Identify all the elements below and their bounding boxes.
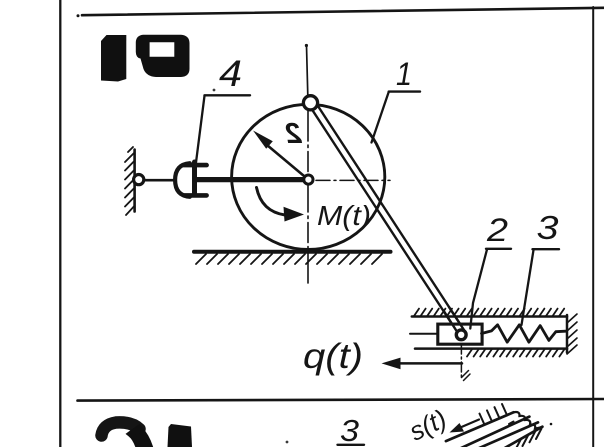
guide channel bottom line (415, 347, 567, 350)
next problem arrow (458, 420, 479, 429)
bottom row border (78, 399, 604, 401)
guide bottom hatching (467, 349, 564, 356)
ground hatching (196, 254, 382, 264)
right wall hatching (567, 314, 577, 354)
bracket bottom arm (184, 193, 207, 198)
next problem number 21 digit 1 (168, 424, 193, 447)
svg-text:M(t): M(t) (317, 200, 371, 231)
label 3 underline (533, 248, 560, 250)
next problem s(t) label (404, 403, 451, 446)
left table border (59, 0, 61, 447)
ground line under disk (194, 250, 391, 254)
bracket top arm (184, 163, 207, 168)
vertical centerline (dash-dot) (307, 111, 309, 283)
disk centre pin (304, 175, 313, 184)
wall (left support) (133, 150, 136, 212)
next problem label 3 underline (338, 444, 365, 446)
svg-text:1: 1 (396, 56, 412, 92)
guide top hatching (414, 309, 564, 316)
connecting rod 1 (double line) (308, 99, 464, 334)
label 1 underline (389, 90, 420, 92)
label 2 leader line (470, 249, 487, 328)
right table border (592, 7, 594, 447)
radius arrowhead (253, 131, 273, 149)
radius arrow shaft (264, 143, 307, 179)
vertical centerline upper solid segment (307, 46, 308, 96)
problem number 19 digit 1 (101, 35, 126, 82)
label 1 leader line (372, 92, 389, 143)
stray dot 3 (213, 89, 216, 92)
guide right wall (566, 315, 569, 353)
moment arrowhead (284, 207, 305, 222)
radius label r (285, 118, 302, 150)
slider pin (456, 330, 466, 340)
crank rod (thick) to disk centre (196, 177, 304, 182)
label 4 leader line (196, 96, 205, 163)
guide channel top line (412, 315, 567, 318)
top table border (82, 8, 604, 15)
slider centerline (dashed, below) (460, 344, 462, 379)
label 3 leader line (522, 250, 534, 325)
pivot pin of piston rod (134, 175, 144, 185)
piston face bar (192, 162, 197, 195)
svg-text:2: 2 (486, 212, 508, 248)
stray dot 2 (286, 441, 289, 444)
moment arc arrow (257, 188, 286, 216)
rod end inside slider (449, 307, 464, 330)
label 4 underline (205, 94, 251, 96)
stray dot (550, 423, 553, 426)
svg-text:3: 3 (340, 413, 359, 447)
crank pin (top) (303, 96, 317, 110)
q(t) arrowhead (382, 358, 401, 370)
disk 1 (232, 104, 385, 249)
svg-text:4: 4 (219, 53, 242, 94)
label 2 underline (486, 248, 511, 250)
problem number 19 digit 9 (136, 35, 190, 77)
spring 3 (482, 325, 566, 342)
svg-text:3: 3 (537, 209, 560, 246)
slider block 2 (438, 324, 482, 344)
next problem hatched block (446, 404, 543, 447)
guide line left of slider (410, 333, 439, 335)
svg-text:2: 2 (285, 118, 302, 150)
svg-text:q(t): q(t) (303, 337, 363, 376)
tick at bottom of slider centerline (462, 371, 471, 381)
wall hatching (125, 147, 134, 215)
piston rod (thin) (144, 179, 176, 182)
piston cup 4 (175, 163, 190, 197)
next problem number 21 digit 2 (102, 422, 140, 435)
q(t) arrow shaft (398, 362, 462, 365)
horizontal centerline (dash-dot) (316, 179, 390, 181)
svg-text:s(t): s(t) (404, 403, 451, 446)
next problem arrowhead (450, 423, 465, 433)
top border start dot (77, 14, 80, 17)
